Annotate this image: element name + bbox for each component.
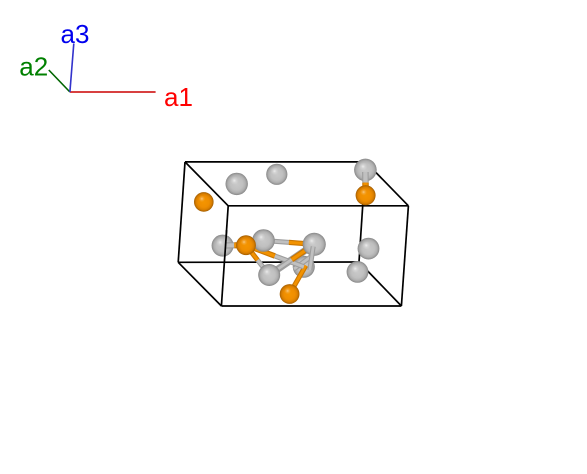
atom P7 orange cluster bbox=[236, 235, 256, 255]
unit cell edge top-back bbox=[185, 161, 366, 163]
unit cell edge vertical back-left bbox=[178, 162, 185, 262]
atom P11 orange cluster-bottom bbox=[280, 284, 300, 304]
atom Si3 gray top-right bbox=[354, 159, 377, 182]
svg-text:a2: a2 bbox=[19, 51, 48, 81]
atom Si12 gray right-upper bbox=[358, 238, 380, 260]
svg-text:a3: a3 bbox=[61, 19, 90, 49]
bond 9-10 orange half bbox=[292, 244, 315, 259]
unit cell edge vertical front-left bbox=[221, 206, 228, 306]
unit cell edge top-right diagonal bbox=[366, 162, 409, 206]
atom Si6 gray cluster-left bbox=[212, 235, 234, 257]
bond 3-4 orange half bbox=[362, 183, 369, 196]
axis a1 line red bbox=[70, 91, 156, 93]
wire front-left edge over atom Si6 bbox=[225, 230, 227, 257]
bond 7-14 gray half bbox=[275, 256, 304, 267]
atom Si8 gray cluster-top bbox=[252, 229, 275, 252]
atom Si2 gray top-middle bbox=[266, 164, 287, 185]
atom P5 orange left bbox=[194, 192, 214, 212]
unit cell edge bottom-right diagonal bbox=[359, 262, 401, 306]
bond 8-9 orange half bbox=[289, 242, 314, 244]
bond 7-10 gray half bbox=[258, 260, 270, 275]
bond thick gray 9-10 bbox=[269, 244, 314, 275]
unit cell edge vertical front-right bbox=[401, 206, 408, 306]
atom P4 orange top-right bbox=[356, 185, 376, 205]
axis a3 line blue bbox=[70, 44, 74, 93]
bond 11 to hidden P orange bbox=[290, 266, 306, 295]
bond 6-7 gray half bbox=[225, 242, 234, 248]
unit cell edge top-left diagonal bbox=[185, 162, 228, 206]
unit cell edge bottom-back bbox=[178, 261, 359, 263]
atom Si9 gray cluster-right bbox=[303, 233, 326, 256]
unit cell edge vertical back-right bbox=[359, 162, 366, 262]
atom Si10 gray cluster-bottom bbox=[258, 264, 280, 286]
unit cell edge bottom-left diagonal bbox=[178, 262, 221, 306]
bond 9-10 gray half bbox=[269, 260, 291, 275]
bond 7-14 orange half bbox=[246, 245, 275, 256]
bond 9-11 gray half over sphere bbox=[310, 247, 313, 271]
bond 7-10 orange half bbox=[246, 245, 258, 260]
svg-text:a1: a1 bbox=[164, 82, 193, 112]
bond 3-4 gray half bbox=[362, 172, 369, 183]
bond 6-7 orange half bbox=[234, 242, 246, 248]
bond 8-9 gray half bbox=[264, 241, 289, 243]
atom Si13 gray right-lower bbox=[347, 261, 369, 283]
axis a2 line green bbox=[49, 70, 70, 92]
unit cell edge bottom-front bbox=[221, 305, 401, 307]
atom Si14 gray back bbox=[293, 256, 315, 278]
atom Si1 gray top-left bbox=[226, 173, 248, 195]
bond hidden gray half over 14 bbox=[294, 256, 313, 270]
unit cell edge top-front bbox=[228, 205, 408, 207]
